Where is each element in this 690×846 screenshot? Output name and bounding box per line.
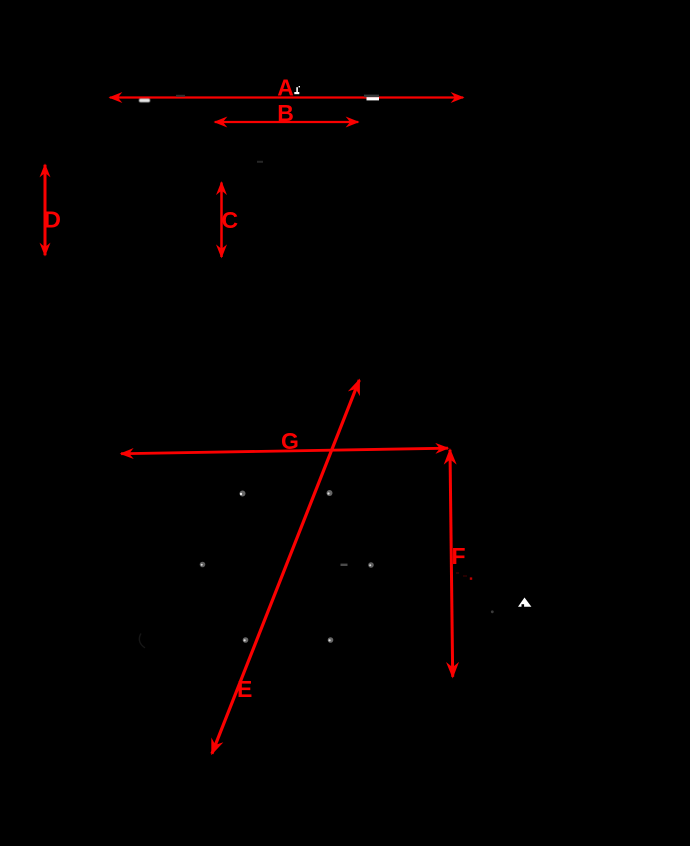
screw hole dot 3 (mid-left) (200, 562, 206, 568)
dimension arrow E (diagonal double arrow) (212, 380, 359, 754)
dimension arrow G (horizontal double arrow) (121, 448, 448, 454)
screw hole dot 5 (bottom-left) (243, 637, 249, 643)
screw hole dot 6 (bottom-right) (328, 637, 334, 643)
white smudge on line A left (139, 99, 150, 103)
svg-text:F: F (452, 543, 466, 569)
tiny white mark right of label A (294, 86, 300, 94)
svg-text:B: B (277, 100, 294, 126)
svg-text:C: C (222, 207, 239, 233)
screw hole dot 4 (mid-right) (368, 562, 374, 568)
dark red specks right of arrow F (470, 577, 472, 579)
faint gray dash near top of arrow C (257, 161, 263, 163)
svg-text:D: D (44, 207, 62, 233)
screw hole dot 2 (top-right) (327, 490, 333, 496)
svg-text:G: G (281, 428, 299, 454)
white triangle marker (518, 598, 531, 607)
dimension arrow A (horizontal double arrow) (110, 96, 463, 98)
dimension arrow C (vertical double arrow) (220, 183, 223, 258)
svg-text:E: E (237, 676, 252, 702)
white dash on line A right with gray shadow (364, 95, 379, 98)
dimension arrow F (vertical double arrow) (450, 450, 453, 677)
faint gray smudge above line A (176, 95, 185, 97)
dimension arrow B (horizontal double arrow) (215, 121, 358, 123)
screw hole dot 1 (top-left) (240, 491, 246, 497)
gray dash left of mid-right dot (341, 564, 348, 566)
svg-text:A: A (277, 75, 294, 101)
dimension arrow D (vertical double arrow) (44, 165, 47, 255)
faint gray arc lower-left of plate (139, 634, 145, 648)
faint gray dot right of triangle row (491, 610, 494, 613)
